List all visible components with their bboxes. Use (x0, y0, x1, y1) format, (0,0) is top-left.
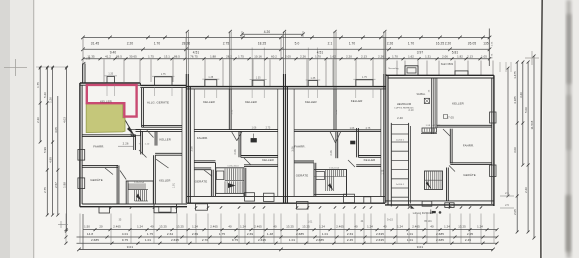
svg-text:2.1: 2.1 (328, 41, 333, 45)
svg-text:2.57: 2.57 (54, 182, 58, 188)
svg-text:4.99: 4.99 (49, 157, 53, 163)
svg-text:1.475: 1.475 (513, 71, 517, 79)
svg-text:4.01: 4.01 (122, 232, 128, 236)
left margin cross mark (4, 67, 27, 69)
unit2 geraete right wall (210, 170, 212, 197)
tall wall extension pairs through top band (185, 32, 187, 75)
unit1 fahrr bottom wall (82, 164, 118, 166)
svg-text:2.64: 2.64 (167, 232, 173, 236)
svg-text:1.24: 1.24 (192, 225, 198, 229)
outer bottom wall unit1 (80, 206, 187, 208)
svg-text:2.685: 2.685 (436, 238, 444, 242)
svg-text:1.35: 1.35 (256, 77, 261, 79)
unit1 stair door diagonal (120, 171, 126, 180)
outer right wall (493, 75, 495, 206)
unit3 vertical wall b (356, 128, 358, 157)
unit2 stair right wall second line (245, 168, 247, 197)
svg-text:41.2: 41.2 (105, 55, 111, 59)
svg-text:9.01: 9.01 (127, 245, 134, 249)
svg-text:KELLER: KELLER (305, 100, 317, 104)
unit4 horizontal wall below keller (437, 124, 492, 126)
outer top wall unit 1 left part (80, 82, 140, 84)
svg-text:2.465: 2.465 (336, 225, 344, 229)
svg-text:FAHRR.: FAHRR. (197, 136, 208, 140)
svg-text:3.06: 3.06 (191, 146, 194, 152)
svg-text:2.40: 2.40 (397, 116, 403, 120)
right edge shadow darker bottom patch (566, 195, 571, 252)
unit2 stairs (216, 168, 244, 194)
svg-text:2.05: 2.05 (285, 55, 291, 59)
svg-text:2.465: 2.465 (412, 225, 420, 229)
unit1 allg-geraete room left wall (141, 88, 143, 128)
svg-text:2.465: 2.465 (113, 225, 121, 229)
svg-text:1.50: 1.50 (84, 225, 90, 229)
svg-text:1.01: 1.01 (289, 238, 295, 242)
svg-text:4.05: 4.05 (54, 127, 58, 133)
svg-text:2.05: 2.05 (513, 209, 517, 215)
right small ticks top (499, 62, 501, 72)
party wall 2 (277, 89, 279, 196)
svg-text:1.70: 1.70 (154, 41, 161, 45)
svg-text:11.515: 11.515 (530, 120, 534, 129)
svg-text:1.75: 1.75 (161, 74, 166, 76)
svg-text:40: 40 (150, 225, 154, 229)
svg-text:1.75: 1.75 (383, 169, 385, 174)
svg-text:1.31: 1.31 (425, 55, 431, 59)
svg-text:26.05: 26.05 (468, 41, 477, 45)
svg-text:1.06: 1.06 (252, 128, 257, 130)
top windows (107, 77, 115, 84)
green highlighted area (86, 104, 125, 133)
svg-text:4.185: 4.185 (513, 96, 517, 104)
unit2 door blob (251, 138, 257, 142)
paper right edge area (543, 0, 579, 258)
svg-text:FAHRR.: FAHRR. (294, 145, 305, 149)
svg-text:2.45: 2.45 (465, 238, 471, 242)
left dim vertical lines (39, 68, 41, 142)
bottom dim row A line (83, 229, 497, 231)
unit1 keller1 left wall (154, 131, 156, 145)
unit1 stair hall (126, 181, 153, 204)
svg-text:2.5: 2.5 (505, 192, 509, 195)
bottom dim row C line (77, 242, 498, 244)
unit1 stair treads upper (128, 183, 130, 189)
svg-text:40: 40 (228, 225, 232, 229)
unit3 fahrr bottom wall (294, 160, 314, 162)
svg-text:9.01: 9.01 (417, 245, 424, 249)
svg-text:Luftung 30/30UKD: Luftung 30/30UKD (413, 212, 434, 215)
svg-text:2.26: 2.26 (524, 187, 528, 193)
svg-text:KELLER: KELLER (159, 179, 170, 183)
left scan strip dark (0, 0, 10, 258)
svg-text:-7.05: -7.05 (447, 116, 454, 120)
svg-text:2.26: 2.26 (387, 41, 394, 45)
svg-text:2.20: 2.20 (127, 41, 134, 45)
svg-text:9.75: 9.75 (232, 238, 238, 242)
svg-text:18.25: 18.25 (258, 41, 267, 45)
svg-text:2.635: 2.635 (376, 232, 384, 236)
svg-text:40: 40 (273, 225, 277, 229)
unit1 lightwell bump below wall (154, 204, 177, 213)
unit4 bottom window boxes (422, 201, 432, 206)
svg-text:31.45: 31.45 (91, 41, 100, 45)
unit2 keller mid bottom wall (244, 164, 278, 166)
svg-text:2.685: 2.685 (91, 238, 99, 242)
bottom-left small marks (58, 224, 68, 226)
neuanlag box above unit4 wall (405, 66, 418, 76)
svg-text:2.13: 2.13 (361, 55, 367, 59)
svg-text:KELLER: KELLER (262, 158, 274, 162)
svg-text:2.685: 2.685 (316, 238, 324, 242)
svg-text:4.20: 4.20 (264, 30, 271, 34)
svg-text:5+15: 5+15 (387, 219, 393, 222)
svg-text:3.51: 3.51 (232, 109, 234, 114)
unit4 corridor right wall upper (449, 129, 451, 164)
top extension lines (82, 59, 84, 82)
svg-text:LÜFTG.HÖHE225: LÜFTG.HÖHE225 (394, 107, 414, 110)
svg-text:2.635: 2.635 (376, 238, 384, 242)
unit4 wall seg below duct (421, 133, 437, 135)
svg-text:1.05=10x4: 1.05=10x4 (329, 167, 340, 169)
svg-text:13.1: 13.1 (164, 55, 170, 59)
unit3 stair treads lower (325, 177, 327, 192)
unit1 corridor left wall lower (140, 131, 142, 154)
svg-text:1.88: 1.88 (210, 55, 216, 59)
mid-length window extensions (251, 48, 253, 81)
svg-text:2.20: 2.20 (346, 55, 352, 59)
svg-text:2.75: 2.75 (43, 187, 47, 193)
unit1 allg-geraete bottom wall (142, 124, 182, 126)
unit1 keller2 door diagonal (156, 159, 169, 168)
right edge shadow continuous band (567, 0, 572, 258)
svg-text:2.69: 2.69 (247, 232, 253, 236)
svg-text:Stahl 6582: Stahl 6582 (441, 63, 454, 66)
svg-text:2.465: 2.465 (254, 225, 262, 229)
svg-text:2.635: 2.635 (258, 238, 266, 242)
unit4 duct box (422, 128, 437, 132)
svg-text:Neuanlag: Neuanlag (388, 68, 399, 70)
unit4 stair shaft rungs (391, 123, 408, 125)
svg-text:40: 40 (354, 225, 358, 229)
svg-text:1.75: 1.75 (36, 82, 40, 88)
unit4 kamin box (424, 98, 429, 103)
svg-text:1.05=10x4: 1.05=10x4 (134, 182, 145, 184)
svg-text:1.05=10x4: 1.05=10x4 (227, 166, 239, 168)
svg-text:3.97: 3.97 (417, 50, 424, 54)
unit3 top divider wall (333, 89, 335, 130)
svg-text:ALLG. GERÄTE: ALLG. GERÄTE (147, 100, 169, 104)
svg-text:1.35: 1.35 (491, 41, 493, 46)
party wall 1 (181, 88, 183, 204)
svg-text:13.25: 13.25 (458, 225, 466, 229)
unit3 stairs (314, 170, 347, 195)
unit1 keller1 bottom wall (155, 152, 182, 154)
svg-text:35 101: 35 101 (424, 221, 432, 223)
unit2 small room top wall (241, 155, 278, 157)
svg-text:13.25: 13.25 (302, 225, 310, 229)
svg-text:FAHRR.: FAHRR. (463, 144, 474, 148)
svg-text:KELLER: KELLER (245, 100, 257, 104)
svg-text:86.5: 86.5 (174, 55, 180, 59)
unit3 vertical wall a (335, 132, 337, 159)
svg-text:60.2: 60.2 (271, 55, 277, 59)
svg-text:3.51: 3.51 (336, 109, 338, 114)
outer top wall unit 4 (raised) (386, 74, 494, 76)
unit3 mid horizontal wall (294, 129, 381, 131)
unit3 stair arrow (328, 183, 333, 191)
svg-text:1.24: 1.24 (367, 225, 373, 229)
unit1 keller2 left wall (153, 155, 155, 204)
right margin cross mark (525, 57, 539, 59)
svg-text:1.06: 1.06 (350, 128, 355, 130)
svg-text:2.26: 2.26 (300, 55, 306, 59)
outer top wall units 2-3 (lower) (187, 86, 387, 88)
svg-text:2.685: 2.685 (436, 232, 444, 236)
left wall windows (78, 150, 85, 161)
svg-text:2.28: 2.28 (330, 150, 333, 156)
unit2 fahrr bottom wall (194, 160, 215, 162)
svg-text:FAHRR.: FAHRR. (93, 144, 104, 148)
svg-text:1.70: 1.70 (349, 41, 356, 45)
svg-text:9.75: 9.75 (122, 238, 128, 242)
unit1 stair arrow (136, 194, 142, 202)
svg-text:14.8: 14.8 (87, 232, 93, 236)
svg-text:GERÄTE: GERÄTE (296, 174, 309, 178)
unit4 heizraum/keller divider (431, 78, 433, 134)
party wall 3 (380, 89, 382, 196)
svg-text:1.24: 1.24 (137, 225, 143, 229)
svg-text:1.24: 1.24 (319, 225, 325, 229)
svg-text:5.99: 5.99 (43, 147, 47, 153)
svg-text:5.06: 5.06 (524, 107, 528, 113)
shaft bottom dark arrow (411, 205, 415, 208)
svg-text:1.05: 1.05 (481, 55, 487, 59)
left stack top tie marks (36, 66, 68, 68)
unit4 door diagonals (443, 129, 450, 136)
svg-text:1.01: 1.01 (407, 232, 413, 236)
unit1 stair treads lower (134, 190, 136, 201)
right wall windows (490, 112, 496, 123)
bottom windows (99, 207, 110, 213)
bottom extension lines (65, 214, 67, 244)
svg-text:1x200:1: 1x200:1 (396, 184, 405, 186)
svg-text:KELLER: KELLER (100, 100, 112, 104)
right small dashed marks bottom (500, 195, 514, 197)
unit3 keller bottom wall (356, 164, 381, 166)
unit3 stair hall walls (313, 163, 315, 197)
svg-text:20: 20 (99, 225, 103, 229)
pink room outline (87, 85, 137, 117)
svg-text:4.03: 4.03 (63, 117, 67, 123)
svg-text:2.5: 2.5 (505, 204, 509, 207)
outer left wall (79, 83, 81, 207)
unit3 door V swing (330, 132, 335, 143)
svg-text:2.13: 2.13 (467, 55, 473, 59)
right dim vertical lines (507, 68, 509, 196)
svg-text:1x200:1: 1x200:1 (396, 140, 405, 142)
unit3 small room top wall (358, 155, 381, 157)
svg-text:2.45: 2.45 (347, 238, 353, 242)
svg-text:1.24: 1.24 (444, 225, 450, 229)
svg-text:1.75: 1.75 (362, 77, 367, 79)
svg-text:1.35: 1.35 (108, 74, 113, 76)
svg-text:2.63: 2.63 (347, 232, 353, 236)
svg-text:86.5: 86.5 (116, 55, 122, 59)
unit4 corridor right wall lower (446, 168, 448, 201)
unit1 wall geraete/stair (116, 165, 118, 204)
svg-text:1.24: 1.24 (477, 225, 483, 229)
svg-text:1.26: 1.26 (49, 97, 53, 103)
svg-text:8.75: 8.75 (491, 53, 493, 58)
svg-text:2.685: 2.685 (296, 232, 304, 236)
unit4 top window (455, 71, 468, 75)
svg-text:2.20: 2.20 (445, 41, 452, 45)
svg-text:2.75: 2.75 (223, 41, 230, 45)
svg-text:1.70: 1.70 (392, 55, 398, 59)
top band right terminator (488, 29, 490, 67)
svg-text:2.26: 2.26 (378, 55, 384, 59)
svg-text:1.98: 1.98 (63, 182, 67, 188)
svg-text:3.26: 3.26 (519, 92, 523, 98)
svg-text:1.35: 1.35 (311, 78, 316, 80)
svg-text:2.70: 2.70 (202, 238, 208, 242)
svg-text:28.2: 28.2 (226, 55, 232, 59)
svg-text:1.01: 1.01 (322, 232, 328, 236)
paper edge line (541, 0, 542, 258)
right edge shadow darker mid patch (567, 95, 571, 150)
svg-text:1.98 1.05 1.40: 1.98 1.05 1.40 (426, 125, 441, 127)
svg-text:2.36: 2.36 (36, 117, 40, 123)
svg-text:2.465: 2.465 (210, 225, 218, 229)
svg-text:HEIZRAUM: HEIZRAUM (397, 102, 411, 106)
unit1 corridor/keller top wall (136, 129, 183, 131)
unit1 wall below green (82, 134, 135, 136)
svg-text:2.26: 2.26 (123, 141, 129, 145)
outer bottom wall unit4 (385, 204, 494, 206)
unit3 door blob (351, 141, 356, 144)
svg-text:KELLER: KELLER (452, 102, 464, 106)
svg-text:5.26: 5.26 (43, 92, 47, 98)
unit2 vertical wall fahrr/keller (238, 131, 240, 157)
svg-text:10.16: 10.16 (254, 55, 262, 59)
top dim row 0 line (4.20) (242, 33, 303, 35)
svg-text:1.48: 1.48 (267, 232, 273, 236)
svg-text:1.70: 1.70 (408, 41, 415, 45)
svg-text:13.25: 13.25 (159, 225, 167, 229)
svg-text:30.65: 30.65 (129, 55, 137, 59)
svg-text:2.75: 2.75 (266, 128, 271, 130)
svg-text:1.01: 1.01 (407, 238, 413, 242)
svg-text:1.01: 1.01 (308, 222, 313, 224)
outer top wall unit 1 right part (step) (140, 84, 186, 86)
svg-text:SEIBEL: SEIBEL (417, 93, 427, 96)
svg-text:1.70: 1.70 (315, 55, 321, 59)
outer bottom wall units2-3 (187, 202, 385, 204)
top dim row 3 line (83, 58, 490, 60)
svg-text:1.62: 1.62 (408, 55, 414, 59)
bottom dim row D line (79, 248, 493, 250)
svg-text:5.0: 5.0 (295, 41, 300, 45)
svg-text:GERÄTE: GERÄTE (195, 179, 208, 183)
bottom dim row B line (77, 236, 498, 238)
svg-text:1.82: 1.82 (457, 55, 463, 59)
unit2 door V swing (232, 132, 237, 141)
svg-text:KELLER: KELLER (351, 99, 363, 103)
svg-text:1.24: 1.24 (397, 225, 403, 229)
unit4 mini stairs (425, 171, 443, 190)
svg-text:1.10: 1.10 (145, 143, 150, 145)
unit1 threshold box (131, 129, 140, 135)
window extension stubs into rooms (106, 85, 108, 96)
svg-text:1.75: 1.75 (219, 232, 225, 236)
unit1 door diagonals (124, 119, 133, 135)
svg-text:2.05: 2.05 (467, 232, 473, 236)
top dim row 2 line (83, 48, 490, 50)
right edge shadow darker top patch (567, 14, 571, 84)
left wall pillar extension above corner (82, 64, 84, 84)
unit4 fahrr/geraete divider (450, 162, 492, 164)
svg-text:1.24: 1.24 (240, 225, 246, 229)
svg-text:GERÄTE: GERÄTE (90, 178, 103, 182)
svg-text:1.91: 1.91 (173, 182, 176, 188)
svg-text:2.69: 2.69 (192, 232, 198, 236)
unit3 stair treads upper (325, 170, 327, 177)
svg-text:KELLER: KELLER (203, 100, 215, 104)
svg-text:2.28: 2.28 (234, 149, 237, 155)
top dim row 1 line (83, 36, 490, 38)
svg-text:40: 40 (383, 225, 387, 229)
svg-text:2.06: 2.06 (442, 55, 448, 59)
svg-text:1.75: 1.75 (147, 232, 153, 236)
left strip edge line (33, 0, 35, 258)
svg-text:GERÄTE: GERÄTE (463, 173, 476, 177)
svg-text:KELLER: KELLER (364, 158, 376, 162)
svg-text:2.635: 2.635 (171, 238, 179, 242)
svg-text:40: 40 (430, 225, 434, 229)
svg-text:3.06: 3.06 (513, 147, 517, 153)
svg-text:KELLER: KELLER (160, 138, 171, 142)
svg-text:1.01: 1.01 (145, 238, 151, 242)
unit1 vertical wall right of fahrr (133, 135, 135, 150)
left scan strip light (10, 0, 34, 258)
svg-text:1.75: 1.75 (148, 55, 154, 59)
svg-text:135: 135 (483, 41, 489, 45)
svg-text:1.35: 1.35 (208, 77, 213, 79)
svg-text:16.25: 16.25 (436, 41, 445, 45)
svg-text:1.25: 1.25 (86, 59, 91, 61)
slashes below bottom wall (110, 206, 112, 208)
unit2 geraete top wall (194, 167, 211, 169)
svg-text:1.75: 1.75 (238, 55, 244, 59)
svg-text:76.75: 76.75 (190, 55, 198, 59)
unit4 stair shaft rails (390, 123, 392, 206)
unit2 top divider wall (228, 89, 230, 130)
unit2 stair hall walls (215, 163, 217, 197)
svg-text:2.75: 2.75 (366, 128, 371, 130)
svg-text:1.62: 1.62 (330, 55, 336, 59)
svg-text:13.25: 13.25 (286, 225, 294, 229)
unit2 mid horizontal wall (194, 129, 278, 131)
svg-text:13.25: 13.25 (176, 225, 184, 229)
